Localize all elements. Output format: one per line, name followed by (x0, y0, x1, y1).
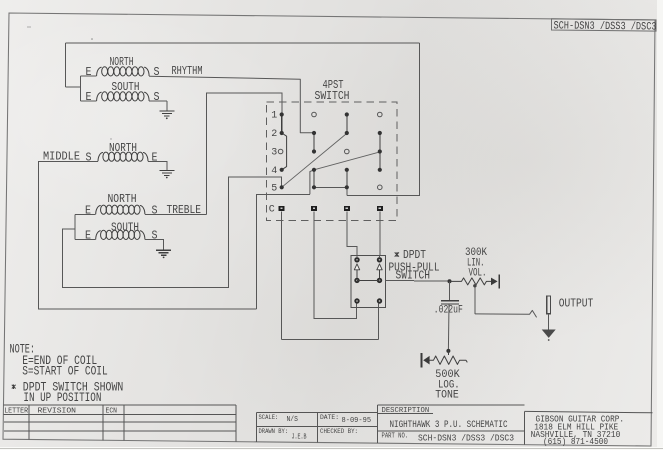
svg-text:S: S (152, 204, 158, 218)
svg-text:4: 4 (271, 166, 277, 177)
svg-text:SWITCH: SWITCH (315, 89, 350, 103)
svg-text:1: 1 (271, 111, 277, 122)
svg-text:5: 5 (271, 183, 277, 194)
svg-text:8-09-95: 8-09-95 (342, 417, 372, 425)
svg-text:S: S (154, 65, 160, 79)
svg-text:S=START OF COIL: S=START OF COIL (22, 364, 108, 379)
svg-text:LETTER: LETTER (4, 407, 29, 415)
svg-text:SCH-DSN3 /DSS3 /DSC3: SCH-DSN3 /DSS3 /DSC3 (418, 432, 514, 443)
svg-text:S: S (86, 150, 92, 164)
svg-text:MIDDLE: MIDDLE (43, 150, 80, 164)
svg-text:OUTPUT: OUTPUT (559, 297, 594, 311)
svg-text:E: E (85, 203, 91, 217)
svg-text:VOL.: VOL. (469, 268, 487, 280)
svg-text:N/S: N/S (287, 416, 299, 424)
svg-text:3: 3 (271, 148, 277, 159)
svg-text:CHECKED BY:: CHECKED BY: (320, 428, 358, 435)
svg-text:ECN: ECN (106, 408, 118, 416)
svg-text:DRAWN BY:: DRAWN BY: (259, 428, 289, 435)
svg-text:RHYTHM: RHYTHM (172, 64, 203, 78)
svg-text:PART NO.: PART NO. (382, 432, 409, 440)
svg-text:E: E (86, 90, 92, 104)
svg-text:IN UP POSITION: IN UP POSITION (23, 390, 101, 405)
svg-text:S: S (152, 229, 158, 243)
svg-text:S: S (154, 90, 160, 104)
svg-text:.022uF: .022uF (434, 304, 463, 316)
svg-text:E: E (152, 150, 158, 164)
svg-text:NIGHTHAWK 3 P.U. SCHEMATIC: NIGHTHAWK 3 P.U. SCHEMATIC (390, 419, 508, 431)
svg-text:E: E (86, 65, 92, 79)
svg-text:SCALE:: SCALE: (259, 414, 279, 421)
svg-text:J.E.B: J.E.B (292, 434, 307, 442)
svg-text:2: 2 (271, 129, 277, 140)
svg-text:DATE:: DATE: (320, 414, 339, 421)
svg-text:NORTH: NORTH (108, 192, 137, 206)
svg-text:TONE: TONE (435, 390, 459, 402)
svg-text:SCH-DSN3 /DSS3 /DSC3: SCH-DSN3 /DSS3 /DSC3 (553, 20, 656, 33)
svg-text:(615) 871-4500: (615) 871-4500 (543, 437, 608, 447)
svg-text:REVISION: REVISION (38, 408, 77, 416)
svg-text:C: C (269, 205, 275, 216)
svg-text:E: E (85, 229, 91, 243)
